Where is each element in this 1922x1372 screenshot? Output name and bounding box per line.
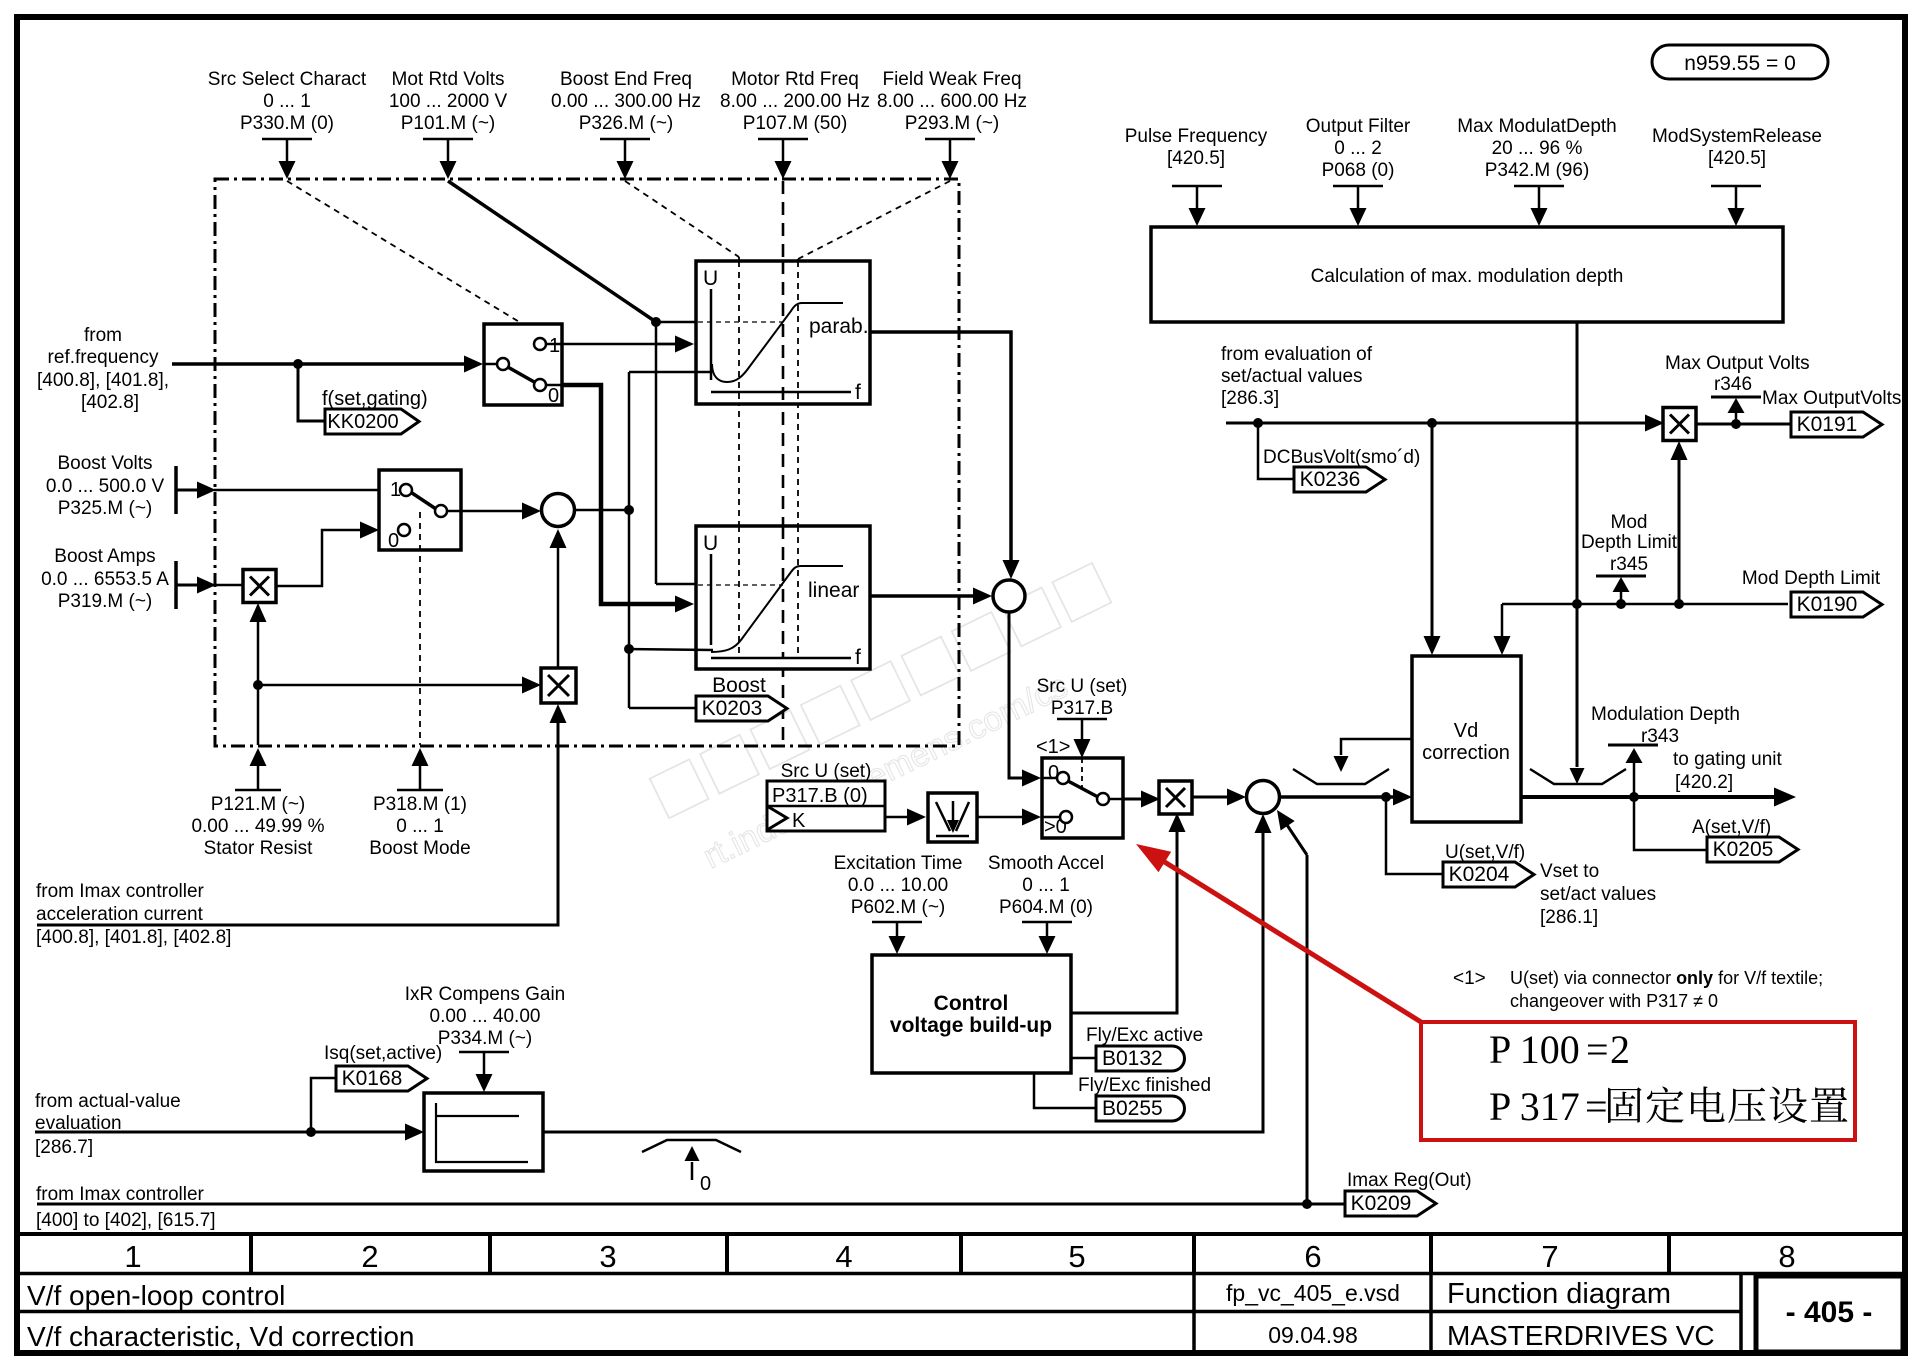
- svg-text:P604.M (0): P604.M (0): [999, 897, 1093, 918]
- wire Vd out to gating: [1521, 795, 1774, 799]
- wire boost vertical: [628, 372, 631, 708]
- block: IxR compensation: [424, 1093, 543, 1171]
- svg-text:K0209: K0209: [1351, 1192, 1412, 1215]
- svg-text:Boost Mode: Boost Mode: [369, 838, 470, 859]
- limiter jaws after Vd: [1530, 769, 1626, 784]
- svg-text:B0255: B0255: [1102, 1097, 1163, 1120]
- svg-text:Fly/Exc active: Fly/Exc active: [1086, 1025, 1203, 1046]
- red annotation box: [1421, 1022, 1855, 1140]
- node mod depth limit line: [1572, 599, 1582, 609]
- svg-text:0.0 ... 10.00: 0.0 ... 10.00: [848, 875, 948, 896]
- svg-text:Boost End Freq: Boost End Freq: [560, 69, 692, 90]
- svg-text:P317.B: P317.B: [1051, 698, 1113, 719]
- wire X4 to K0191: [1696, 423, 1791, 426]
- svg-text:4: 4: [835, 1239, 852, 1274]
- svg-text:0: 0: [388, 530, 399, 552]
- svg-text:changeover with P317 ≠ 0: changeover with P317 ≠ 0: [1510, 991, 1718, 1011]
- wire to K0205: [1634, 797, 1707, 850]
- svg-text:Imax Reg(Out): Imax Reg(Out): [1347, 1170, 1472, 1191]
- svg-text:to gating unit: to gating unit: [1673, 749, 1783, 770]
- svg-text:P101.M (~): P101.M (~): [401, 113, 496, 134]
- svg-text:Boost Volts: Boost Volts: [57, 453, 152, 474]
- svg-text:MASTERDRIVES VC: MASTERDRIVES VC: [1447, 1320, 1715, 1351]
- node r343/K0205: [1629, 792, 1639, 802]
- svg-text:0 ... 1: 0 ... 1: [263, 91, 311, 112]
- svg-text:linear: linear: [808, 579, 859, 602]
- svg-text:Src U (set): Src U (set): [781, 761, 872, 782]
- terminal bar Boost Amps: [174, 561, 178, 609]
- wire DCBus down to Vd box: [1431, 423, 1434, 639]
- wire linear output: [870, 594, 975, 598]
- wire control box to X3 riser: [1071, 830, 1177, 1013]
- parameter P604 stub: [1022, 921, 1072, 924]
- display tap r346: [1731, 419, 1741, 429]
- wire accel current to X2: [37, 721, 558, 925]
- parameter P121 stub: [235, 789, 281, 792]
- multiplier X3: [1159, 781, 1192, 814]
- connector K0190: [1791, 592, 1882, 617]
- svg-text:=: =: [1586, 1027, 1609, 1072]
- page number - 405 -: [1756, 1276, 1903, 1352]
- connector KK0200: [325, 409, 419, 434]
- svg-text:K0204: K0204: [1449, 863, 1510, 886]
- wire U-level vertical: [655, 322, 658, 584]
- svg-text:0.00 ... 300.00 Hz: 0.00 ... 300.00 Hz: [551, 91, 701, 112]
- svg-text:U: U: [703, 267, 718, 290]
- svg-text:P121.M (~): P121.M (~): [211, 794, 306, 815]
- wire mod depth limit to Vd box: [1501, 604, 1504, 639]
- svg-text:r346: r346: [1714, 374, 1752, 395]
- svg-text:Src U (set): Src U (set): [1037, 676, 1128, 697]
- wire X2 up to summing circle: [557, 546, 560, 668]
- connector K0236: [1294, 467, 1385, 492]
- svg-text:[400.8], [401.8],: [400.8], [401.8],: [37, 370, 169, 391]
- dash-dot function group box: [215, 179, 959, 746]
- dashed construction line from P293: [798, 181, 950, 259]
- solid construction line from P101 (Mot Rtd Volts): [448, 181, 656, 322]
- svg-text:Mot Rtd Volts: Mot Rtd Volts: [392, 69, 505, 90]
- display tap r343: [1633, 762, 1636, 797]
- summing circle characteristic: [993, 580, 1025, 612]
- red annotation arrow: [1155, 856, 1421, 1022]
- wire S1 "0" output (thick) to linear f-input: [562, 385, 676, 604]
- dashed verticals redraw inside blocks: [738, 261, 740, 404]
- svg-text:P326.M (~): P326.M (~): [579, 113, 674, 134]
- multiplier X1 (Boost Amps x Stator Resist): [243, 570, 276, 603]
- svg-text:<1>: <1>: [1453, 968, 1486, 989]
- parameter P101 header: [389, 69, 508, 179]
- svg-text:from: from: [84, 325, 122, 346]
- node actual-value tap: [306, 1127, 316, 1137]
- svg-text:0: 0: [548, 385, 559, 407]
- svg-text:KK0200: KK0200: [327, 411, 398, 433]
- svg-text:Field Weak Freq: Field Weak Freq: [882, 69, 1021, 90]
- svg-text:correction: correction: [1422, 742, 1510, 764]
- svg-text:Mod: Mod: [1611, 512, 1648, 533]
- svg-text:K0190: K0190: [1797, 593, 1858, 616]
- parameter P602 stub: [872, 921, 922, 924]
- wire X3 to summing circle: [1192, 796, 1229, 799]
- wire to K0204: [1386, 797, 1443, 874]
- svg-text:=: =: [1585, 1084, 1608, 1129]
- svg-text:5: 5: [1068, 1239, 1085, 1274]
- limiter min 0 symbol: [642, 1140, 741, 1152]
- svg-text:0 ... 1: 0 ... 1: [396, 816, 444, 837]
- svg-text:1: 1: [124, 1239, 141, 1274]
- svg-text:6: 6: [1304, 1239, 1321, 1274]
- svg-text:0.00 ... 40.00: 0.00 ... 40.00: [430, 1006, 541, 1027]
- node boost vertical top: [624, 505, 634, 515]
- wire ref.frequency to switch S1: [172, 362, 466, 366]
- svg-text:Excitation Time: Excitation Time: [834, 853, 963, 874]
- svg-text:K0191: K0191: [1797, 413, 1858, 436]
- connector K0204: [1443, 862, 1534, 887]
- wire IxR output to summing circle S3: [543, 831, 1263, 1132]
- svg-text:Max Output Volts: Max Output Volts: [1665, 353, 1810, 374]
- wire calc box output riser: [1576, 322, 1579, 604]
- wire ramp to switch S3: [977, 816, 1023, 819]
- title block table: [16, 1232, 1906, 1236]
- svg-text:Src Select Charact: Src Select Charact: [208, 69, 367, 90]
- svg-text:[420.5]: [420.5]: [1708, 148, 1766, 169]
- svg-text:P317.B (0): P317.B (0): [772, 785, 868, 807]
- svg-text:P068 (0): P068 (0): [1322, 160, 1395, 181]
- svg-text:U(set) via connector only for: U(set) via connector only for V/f textil…: [1510, 968, 1823, 988]
- parameter P318 stub: [397, 789, 443, 792]
- summing circle main: [1247, 781, 1280, 814]
- wire control box to B0255: [1034, 1073, 1096, 1108]
- wire Imax reg out: [37, 1203, 1345, 1206]
- multiplier X4: [1663, 408, 1696, 441]
- wire Boost Volts to switch S2: [176, 489, 199, 492]
- dashed construction line inside switch S1: [522, 324, 524, 358]
- svg-text:K0203: K0203: [702, 697, 763, 720]
- svg-text:Depth Limit: Depth Limit: [1581, 532, 1678, 553]
- dashed control line P318 to S2: [419, 512, 421, 745]
- svg-text:8: 8: [1778, 1239, 1795, 1274]
- binector B0132: [1096, 1046, 1184, 1071]
- block: Calculation of max. modulation depth: [1151, 227, 1783, 322]
- dashed vertical Field Weak Freq: [797, 259, 799, 659]
- svg-text:20 ... 96 %: 20 ... 96 %: [1492, 138, 1583, 159]
- wire parab output: [870, 332, 1011, 562]
- block: Control voltage build-up: [872, 955, 1071, 1073]
- svg-text:from evaluation of: from evaluation of: [1221, 344, 1373, 365]
- binector B0255: [1096, 1096, 1184, 1121]
- svg-text:[286.3]: [286.3]: [1221, 388, 1279, 409]
- svg-text:V/f characteristic, Vd correct: V/f characteristic, Vd correction: [27, 1321, 414, 1352]
- red box chinese text (drawn glyphs): [1608, 1086, 1847, 1123]
- svg-text:ModSystemRelease: ModSystemRelease: [1652, 126, 1822, 147]
- svg-text:- 405 -: - 405 -: [1786, 1296, 1873, 1329]
- wire mod depth limit line: [1502, 603, 1788, 606]
- svg-text:[286.1]: [286.1]: [1540, 907, 1598, 928]
- svg-text:K0168: K0168: [342, 1067, 403, 1090]
- svg-text:U: U: [703, 532, 718, 555]
- wire boost to K0203: [629, 707, 696, 710]
- svg-text:Boost Amps: Boost Amps: [54, 546, 155, 567]
- wire actual-value to IxR block: [35, 1131, 407, 1134]
- svg-text:Output Filter: Output Filter: [1306, 116, 1411, 137]
- svg-text:Fly/Exc finished: Fly/Exc finished: [1078, 1075, 1211, 1096]
- parameter P342 header: [1457, 116, 1616, 226]
- svg-text:[420.2]: [420.2]: [1675, 772, 1733, 793]
- parameter P330 header: [208, 69, 367, 179]
- svg-text:parab.: parab.: [809, 315, 869, 338]
- svg-text:K: K: [792, 810, 806, 832]
- svg-text:P602.M (~): P602.M (~): [851, 897, 946, 918]
- node Mot Rtd Volts level: [651, 317, 661, 327]
- svg-text:[400.8], [401.8], [402.8]: [400.8], [401.8], [402.8]: [36, 927, 231, 948]
- wire S3 switch to X3: [1123, 798, 1142, 801]
- decorative watermark (skipped labels): [650, 563, 1143, 883]
- svg-text:Vset to: Vset to: [1540, 861, 1599, 882]
- svg-text:from actual-value: from actual-value: [35, 1091, 181, 1112]
- wire DCBusVolt: [1226, 422, 1647, 425]
- svg-text:r343: r343: [1641, 726, 1679, 747]
- limiter jaws before Vd correction: [1293, 769, 1389, 784]
- node U(set) tap: [1381, 792, 1391, 802]
- wire boost to linear block: [629, 649, 713, 650]
- svg-text:[286.7]: [286.7]: [35, 1137, 93, 1158]
- svg-text:Vd: Vd: [1454, 720, 1478, 742]
- svg-text:7: 7: [1541, 1239, 1558, 1274]
- wire riser to summing circle diag: [1306, 855, 1309, 1204]
- svg-text:<1>: <1>: [1036, 736, 1070, 758]
- svg-text:P334.M (~): P334.M (~): [438, 1028, 533, 1049]
- wire S1 "1" output to parab f-input: [562, 343, 676, 346]
- svg-text:V/f open-loop control: V/f open-loop control: [27, 1280, 285, 1311]
- multiplier X2 (boost x accel current): [541, 668, 576, 703]
- svg-text:Pulse Frequency: Pulse Frequency: [1125, 126, 1268, 147]
- svg-text:K0205: K0205: [1713, 838, 1774, 861]
- connector K0203: [696, 696, 787, 721]
- block: linear V/f characteristic: [696, 526, 870, 669]
- svg-text:f: f: [855, 646, 861, 669]
- node ref.freq tap: [293, 359, 303, 369]
- parameter P293 header: [877, 69, 1027, 179]
- svg-text:0.00 ... 49.99 %: 0.00 ... 49.99 %: [191, 816, 324, 837]
- svg-text:P293.M (~): P293.M (~): [905, 113, 1000, 134]
- parameter stub P317.B down to S3: [1057, 718, 1107, 721]
- svg-text:2: 2: [1610, 1027, 1630, 1072]
- switch S1 Src Select Charact: [484, 324, 562, 407]
- wire P121 vertical to X1: [257, 620, 260, 745]
- svg-text:acceleration current: acceleration current: [36, 904, 204, 925]
- svg-text:P 317: P 317: [1489, 1084, 1580, 1129]
- switch S2 Boost Mode: [379, 470, 461, 552]
- svg-text:[402.8]: [402.8]: [81, 392, 139, 413]
- wire U-level to parab block: [656, 321, 696, 324]
- svg-text:P318.M (1): P318.M (1): [373, 794, 467, 815]
- svg-text:P342.M (96): P342.M (96): [1485, 160, 1590, 181]
- svg-text:0 ... 2: 0 ... 2: [1334, 138, 1382, 159]
- svg-text:[400] to [402], [615.7]: [400] to [402], [615.7]: [36, 1210, 216, 1231]
- wire S2 to summing circle: [461, 510, 524, 513]
- dashed construction line from P326: [625, 181, 739, 257]
- block: excitation ramp: [928, 793, 977, 842]
- svg-text:09.04.98: 09.04.98: [1268, 1322, 1358, 1348]
- parameter box P317.B (0) / K: [767, 781, 885, 832]
- node X4 riser: [1674, 599, 1684, 609]
- svg-text:r345: r345: [1610, 554, 1648, 575]
- block: Vd correction: [1412, 656, 1521, 822]
- svg-text:DCBusVolt(smo´d): DCBusVolt(smo´d): [1263, 447, 1420, 468]
- svg-text:Mod Depth Limit: Mod Depth Limit: [1742, 568, 1881, 589]
- svg-text:K0236: K0236: [1300, 468, 1361, 491]
- block: parabolic V/f characteristic: [696, 261, 870, 404]
- node on stator resist drop: [253, 680, 263, 690]
- display tap r345: [1616, 599, 1626, 609]
- parameter PulseFreq header: [1125, 126, 1268, 226]
- wire to K0236: [1258, 423, 1294, 479]
- svg-text:fp_vc_405_e.vsd: fp_vc_405_e.vsd: [1226, 1280, 1400, 1306]
- switch S3 Src U (set): [1042, 758, 1123, 838]
- svg-text:Calculation of max. modulation: Calculation of max. modulation depth: [1311, 266, 1624, 287]
- heavy dashed vertical Motor Rtd Freq: [782, 181, 785, 745]
- svg-text:8.00 ... 600.00 Hz: 8.00 ... 600.00 Hz: [877, 91, 1027, 112]
- wire K0168 tap: [311, 1078, 336, 1132]
- wire riser to limiter hat2: [1576, 604, 1579, 767]
- svg-text:from Imax controller: from Imax controller: [36, 1184, 205, 1205]
- svg-text:0: 0: [700, 1173, 711, 1195]
- node boost to linear: [624, 644, 634, 654]
- connector K0209: [1345, 1191, 1436, 1216]
- svg-text:Motor Rtd Freq: Motor Rtd Freq: [731, 69, 859, 90]
- parameter ModSysRel header: [1652, 126, 1822, 226]
- connector K0168: [336, 1066, 427, 1091]
- summing circle boost: [542, 494, 575, 527]
- svg-text:P319.M (~): P319.M (~): [58, 591, 153, 612]
- svg-text:2: 2: [361, 1239, 378, 1274]
- dashed vertical Boost End Freq: [738, 257, 740, 659]
- svg-text:0.0 ... 500.0 V: 0.0 ... 500.0 V: [46, 476, 165, 497]
- svg-text:A(set,V/f): A(set,V/f): [1692, 817, 1771, 838]
- svg-text:Boost: Boost: [712, 674, 766, 697]
- wire boost sum output: [575, 509, 629, 512]
- wire boost to parab block: [629, 371, 712, 374]
- svg-text:0 ... 1: 0 ... 1: [1022, 875, 1070, 896]
- svg-text:[420.5]: [420.5]: [1167, 148, 1225, 169]
- svg-text:P330.M (0): P330.M (0): [240, 113, 334, 134]
- wire Boost Amps to multiplier X1: [176, 584, 199, 587]
- svg-text:3: 3: [599, 1239, 616, 1274]
- svg-text:set/act values: set/act values: [1540, 884, 1656, 905]
- parameter P068 header: [1306, 116, 1411, 226]
- parameter P334 stub: [459, 1051, 509, 1054]
- wire stator-resist line to X2: [258, 684, 523, 687]
- svg-text:100 ... 2000 V: 100 ... 2000 V: [389, 91, 508, 112]
- connector K0205: [1707, 837, 1798, 862]
- svg-text:ref.frequency: ref.frequency: [48, 347, 159, 368]
- svg-text:Control: Control: [934, 992, 1009, 1015]
- wire char sum down to switch S3: [1009, 612, 1023, 778]
- terminal bar Boost Volts: [174, 466, 178, 514]
- svg-text:Max OutputVolts: Max OutputVolts: [1762, 388, 1901, 409]
- wire sum to Vd correction: [1280, 795, 1394, 799]
- svg-text:voltage build-up: voltage build-up: [890, 1014, 1052, 1037]
- dashed construction line from P330 to switch S1: [287, 181, 521, 323]
- svg-text:IxR Compens Gain: IxR Compens Gain: [405, 984, 566, 1005]
- wire to KK0200: [298, 364, 325, 421]
- svg-text:B0132: B0132: [1102, 1047, 1163, 1070]
- svg-text:Modulation Depth: Modulation Depth: [1591, 704, 1740, 725]
- svg-text:P 100: P 100: [1489, 1027, 1580, 1072]
- svg-text:set/actual values: set/actual values: [1221, 366, 1363, 387]
- wire P317 box to ramp block: [885, 816, 908, 819]
- svg-text:P107.M (50): P107.M (50): [743, 113, 848, 134]
- node K0209 riser: [1302, 1199, 1312, 1209]
- note box n959.55 = 0: [1652, 45, 1828, 79]
- parameter P107 header: [720, 69, 870, 179]
- svg-text:f: f: [855, 381, 861, 404]
- wire control box to B0132: [1071, 1057, 1096, 1060]
- svg-text:U(set,V/f): U(set,V/f): [1445, 842, 1525, 863]
- parameter P326 header: [551, 69, 701, 179]
- svg-text:Max ModulatDepth: Max ModulatDepth: [1457, 116, 1616, 137]
- svg-text:f(set,gating): f(set,gating): [322, 388, 428, 410]
- wire U-level to linear block: [656, 583, 696, 586]
- wire X1 out to S2 switch 0-input: [276, 530, 361, 586]
- svg-text:Isq(set,active): Isq(set,active): [324, 1043, 442, 1064]
- connector K0191: [1791, 412, 1882, 437]
- svg-text:P325.M (~): P325.M (~): [58, 498, 153, 519]
- node K0236 tap: [1253, 418, 1263, 428]
- wire riser to X4: [1678, 458, 1681, 604]
- svg-text:Stator Resist: Stator Resist: [204, 838, 313, 859]
- node DCBus to Vd: [1427, 418, 1437, 428]
- svg-text:Function diagram: Function diagram: [1447, 1278, 1671, 1310]
- svg-text:0.0 ... 6553.5 A: 0.0 ... 6553.5 A: [41, 569, 169, 590]
- wire Vd feedback to limiter: [1341, 739, 1412, 755]
- svg-text:1: 1: [549, 335, 560, 357]
- svg-text:8.00 ... 200.00 Hz: 8.00 ... 200.00 Hz: [720, 91, 870, 112]
- svg-text:Smooth Accel: Smooth Accel: [988, 853, 1104, 874]
- svg-text:n959.55 = 0: n959.55 = 0: [1684, 52, 1796, 75]
- svg-text:from Imax controller: from Imax controller: [36, 881, 205, 902]
